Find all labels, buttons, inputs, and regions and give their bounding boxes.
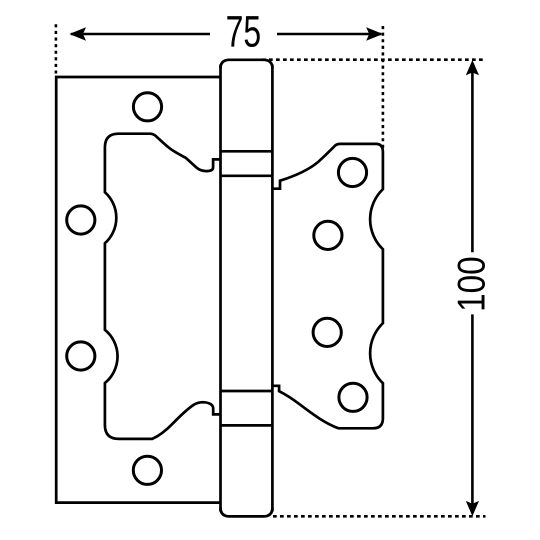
knuckle line 4 xyxy=(221,424,273,427)
svg-text:75: 75 xyxy=(226,8,262,57)
extension dotted line right xyxy=(382,26,385,148)
extension dotted line top horizontal xyxy=(262,58,486,61)
barrel left edge xyxy=(219,65,222,512)
right leaf hole top xyxy=(338,158,366,186)
barrel top cap xyxy=(221,60,273,69)
width dimension line right segment xyxy=(277,33,381,36)
left leaf hole lower-left xyxy=(67,342,95,370)
barrel right edge xyxy=(271,65,274,512)
height dimension line top segment xyxy=(471,63,474,252)
right leaf hole bottom xyxy=(339,383,367,411)
width dimension line left segment xyxy=(71,33,210,36)
extension dotted line left xyxy=(55,24,58,73)
arrowhead left xyxy=(69,27,86,41)
svg-text:100: 100 xyxy=(451,256,494,312)
arrowhead up xyxy=(466,60,479,75)
extension dotted line bottom horizontal xyxy=(273,515,486,518)
knuckle line 2 xyxy=(221,174,273,177)
arrowhead down xyxy=(466,501,479,516)
barrel bottom cap xyxy=(221,508,273,517)
height dimension line bottom segment xyxy=(471,314,474,513)
arrowhead right xyxy=(366,27,383,41)
right leaf hole lower-mid xyxy=(313,318,341,346)
knuckle line 3 xyxy=(221,390,273,393)
right leaf hole upper-mid xyxy=(314,221,342,249)
left leaf hole top xyxy=(133,93,161,121)
knuckle line 1 xyxy=(221,150,273,153)
left leaf outline xyxy=(56,77,220,503)
right leaf outline xyxy=(272,144,383,428)
left leaf hole bottom xyxy=(133,456,161,484)
left leaf hole upper-left xyxy=(67,206,95,234)
left leaf cutout xyxy=(105,134,221,439)
